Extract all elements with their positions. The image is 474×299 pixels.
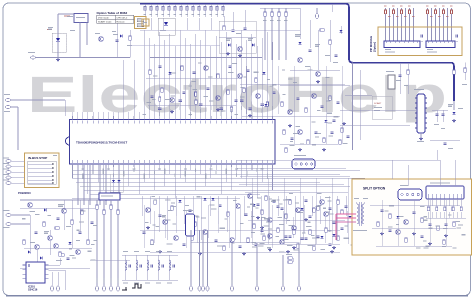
svg-text:SCART: SCART xyxy=(374,102,382,105)
svg-text:DVD mode: DVD mode xyxy=(98,17,109,19)
svg-text:[Option]: [Option] xyxy=(373,42,377,52)
svg-text:TDA9363PS/N3/4/2015,TVCM-EU01T: TDA9363PS/N3/4/2015,TVCM-EU01T xyxy=(76,140,127,144)
svg-text:Remove: Remove xyxy=(117,22,126,24)
svg-text:SCART mode: SCART mode xyxy=(98,21,112,24)
svg-text:Option Table of R362: Option Table of R362 xyxy=(97,11,128,15)
svg-text:PIP MODULE: PIP MODULE xyxy=(369,36,373,52)
svg-text:S24C16: S24C16 xyxy=(28,288,38,292)
svg-text:CPK 047-2: CPK 047-2 xyxy=(117,17,128,19)
svg-text:PCB22810: PCB22810 xyxy=(18,191,31,195)
svg-text:SPLIT OPTION: SPLIT OPTION xyxy=(363,187,386,191)
svg-text:IN-BUS STOP: IN-BUS STOP xyxy=(28,156,47,160)
